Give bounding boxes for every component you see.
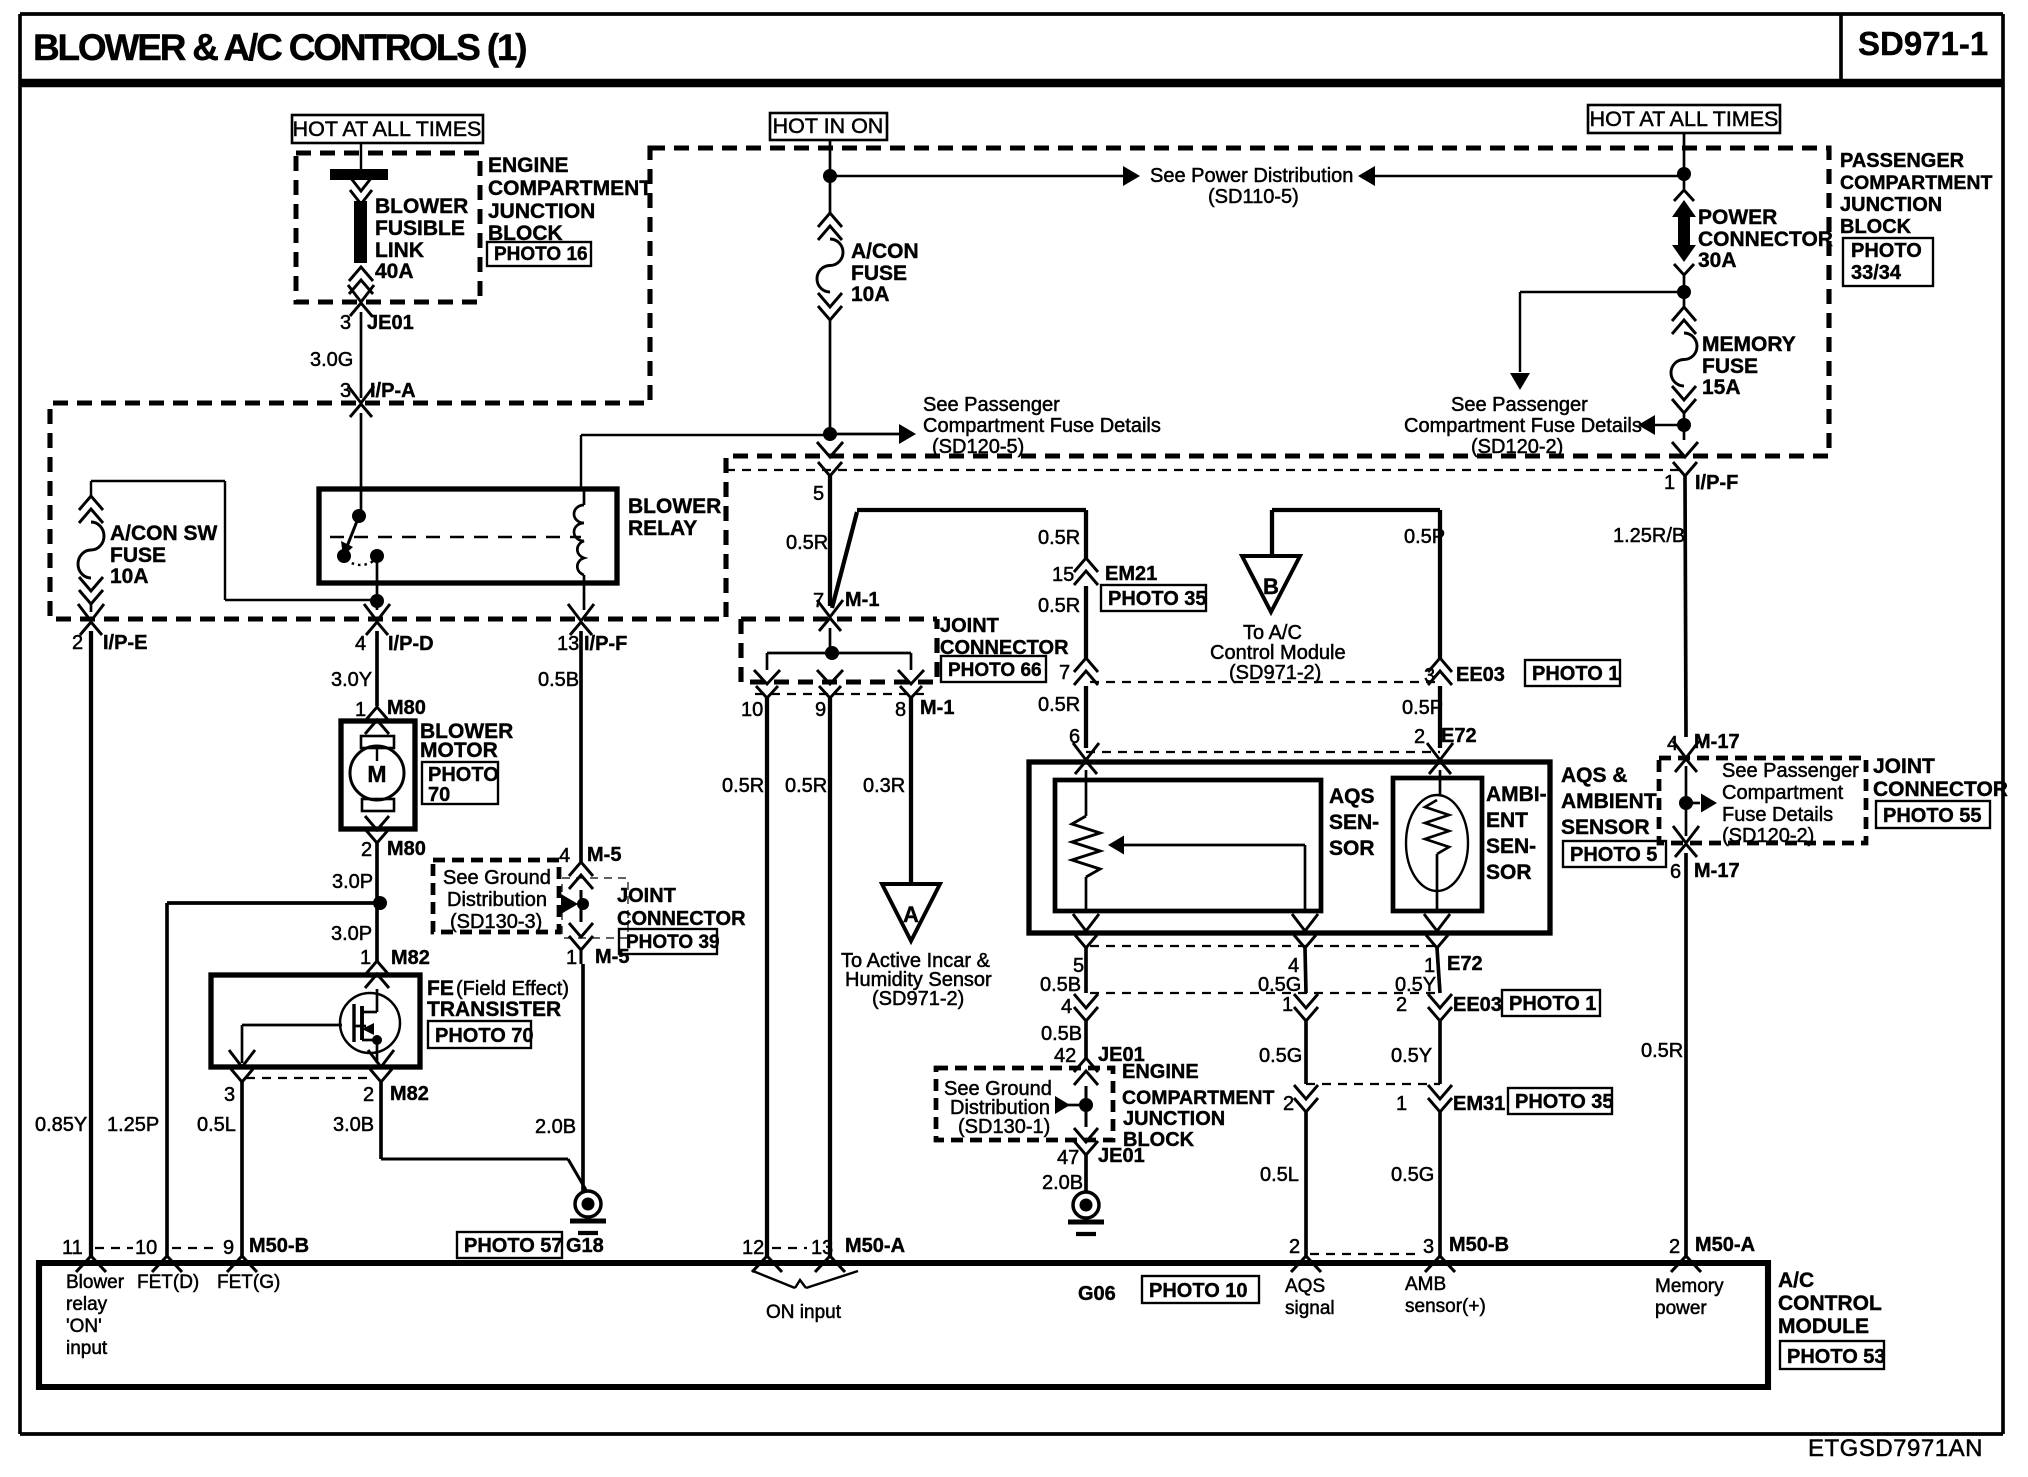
svg-text:I/P-D: I/P-D: [388, 633, 434, 655]
svg-text:Memory: Memory: [1655, 1276, 1724, 1297]
svg-text:PHOTO 1: PHOTO 1: [1509, 993, 1596, 1015]
svg-text:POWER: POWER: [1698, 206, 1777, 229]
svg-text:AQS: AQS: [1285, 1276, 1325, 1297]
svg-text:BLOWER & A/C CONTROLS (1): BLOWER & A/C CONTROLS (1): [33, 27, 526, 68]
svg-text:1: 1: [1396, 1093, 1407, 1115]
svg-text:(SD120-2): (SD120-2): [1722, 825, 1814, 847]
svg-text:0.5R: 0.5R: [786, 532, 828, 554]
svg-text:0.5R: 0.5R: [1641, 1040, 1683, 1062]
svg-text:3: 3: [340, 380, 351, 402]
svg-text:2: 2: [1289, 1236, 1300, 1258]
svg-text:JUNCTION: JUNCTION: [488, 200, 595, 223]
svg-text:(SD971-2): (SD971-2): [872, 988, 964, 1010]
svg-text:PHOTO 5: PHOTO 5: [1570, 844, 1657, 866]
svg-text:0.5B: 0.5B: [1040, 974, 1081, 996]
svg-text:2: 2: [1669, 1236, 1680, 1258]
svg-text:PHOTO 16: PHOTO 16: [494, 244, 588, 265]
svg-text:1: 1: [1664, 472, 1675, 494]
svg-text:(SD130-3): (SD130-3): [450, 911, 542, 933]
svg-text:SENSOR: SENSOR: [1561, 816, 1650, 839]
svg-text:6: 6: [1670, 861, 1681, 883]
svg-text:LINK: LINK: [375, 239, 424, 262]
svg-text:COMPARTMENT: COMPARTMENT: [1122, 1087, 1274, 1109]
svg-text:(SD971-2): (SD971-2): [1229, 662, 1321, 684]
svg-text:'ON': 'ON': [66, 1316, 102, 1337]
svg-text:2: 2: [1283, 1093, 1294, 1115]
svg-text:M50-A: M50-A: [845, 1235, 905, 1257]
svg-text:FUSE: FUSE: [1702, 355, 1758, 378]
svg-text:JOINT: JOINT: [940, 615, 999, 637]
svg-text:0.5L: 0.5L: [1260, 1164, 1299, 1186]
svg-text:2: 2: [363, 1084, 374, 1106]
svg-text:3.0B: 3.0B: [333, 1114, 374, 1136]
svg-text:4: 4: [355, 633, 366, 655]
svg-text:FUSIBLE: FUSIBLE: [375, 217, 465, 240]
svg-text:13: 13: [557, 633, 579, 655]
svg-text:Compartment: Compartment: [1722, 782, 1844, 804]
svg-text:PHOTO: PHOTO: [1851, 240, 1922, 262]
svg-text:M-5: M-5: [587, 844, 621, 866]
svg-text:0.5R: 0.5R: [1038, 595, 1080, 617]
svg-text:1: 1: [1282, 994, 1293, 1016]
svg-text:9: 9: [223, 1237, 234, 1259]
svg-text:SD971-1: SD971-1: [1858, 25, 1988, 62]
svg-text:5: 5: [813, 483, 824, 505]
svg-text:70: 70: [428, 784, 450, 806]
svg-text:AQS &: AQS &: [1561, 764, 1628, 787]
svg-text:4: 4: [559, 845, 570, 867]
svg-text:See Power Distribution: See Power Distribution: [1150, 165, 1353, 187]
svg-text:0.5P: 0.5P: [1402, 697, 1443, 719]
svg-text:HOT AT ALL TIMES: HOT AT ALL TIMES: [1590, 107, 1779, 131]
svg-text:10A: 10A: [110, 565, 149, 588]
svg-text:BLOWER: BLOWER: [375, 195, 468, 218]
svg-text:3: 3: [1423, 1236, 1434, 1258]
svg-text:See Passenger: See Passenger: [1451, 394, 1588, 416]
svg-text:CONNECTOR: CONNECTOR: [1698, 228, 1833, 251]
svg-text:0.5G: 0.5G: [1258, 974, 1301, 996]
svg-text:COMPARTMENT: COMPARTMENT: [1840, 172, 1992, 194]
svg-text:I/P-F: I/P-F: [584, 633, 627, 655]
svg-text:JOINT: JOINT: [617, 885, 676, 907]
svg-text:Control Module: Control Module: [1210, 642, 1346, 664]
svg-text:2.0B: 2.0B: [535, 1116, 576, 1138]
svg-text:PHOTO 70: PHOTO 70: [435, 1025, 534, 1047]
svg-text:3.0P: 3.0P: [331, 923, 372, 945]
svg-text:CONTROL: CONTROL: [1778, 1292, 1882, 1315]
svg-text:40A: 40A: [375, 260, 414, 283]
svg-text:4: 4: [1061, 996, 1072, 1018]
svg-text:2: 2: [72, 632, 83, 654]
svg-text:E72: E72: [1441, 725, 1477, 747]
svg-text:EM21: EM21: [1105, 563, 1157, 585]
svg-text:M50-B: M50-B: [249, 1235, 309, 1257]
svg-text:A/CON SW: A/CON SW: [110, 522, 218, 545]
svg-text:M-5: M-5: [595, 946, 629, 968]
svg-text:MEMORY: MEMORY: [1702, 333, 1796, 356]
svg-text:PHOTO 35: PHOTO 35: [1108, 588, 1207, 610]
svg-text:PHOTO 66: PHOTO 66: [948, 660, 1042, 681]
svg-text:FET(D): FET(D): [137, 1272, 199, 1293]
svg-text:TRANSISTER: TRANSISTER: [427, 998, 561, 1021]
svg-text:PHOTO 53: PHOTO 53: [1787, 1346, 1886, 1368]
svg-text:FET(G): FET(G): [217, 1272, 280, 1293]
svg-text:1: 1: [355, 699, 366, 721]
svg-text:AQS: AQS: [1329, 785, 1375, 808]
svg-text:SOR: SOR: [1486, 861, 1532, 884]
svg-text:E72: E72: [1447, 953, 1483, 975]
svg-text:6: 6: [1069, 726, 1080, 748]
svg-text:JE01: JE01: [367, 312, 414, 334]
svg-text:G06: G06: [1078, 1283, 1116, 1305]
svg-text:PASSENGER: PASSENGER: [1840, 150, 1965, 172]
svg-text:(SD110-5): (SD110-5): [1208, 186, 1299, 208]
svg-text:10: 10: [741, 699, 763, 721]
svg-text:M80: M80: [387, 838, 426, 860]
svg-text:(Field Effect): (Field Effect): [456, 978, 569, 1000]
svg-text:M82: M82: [390, 1083, 429, 1105]
svg-text:HOT IN ON: HOT IN ON: [773, 114, 884, 138]
svg-text:4: 4: [1667, 733, 1678, 755]
svg-text:15: 15: [1052, 564, 1074, 586]
svg-text:3: 3: [1424, 665, 1435, 687]
svg-text:Compartment Fuse Details: Compartment Fuse Details: [923, 415, 1161, 437]
svg-text:See Passenger: See Passenger: [923, 394, 1060, 416]
svg-text:0.85Y: 0.85Y: [35, 1114, 87, 1136]
svg-text:JOINT: JOINT: [1873, 755, 1935, 778]
svg-text:10A: 10A: [851, 283, 890, 306]
svg-text:SEN-: SEN-: [1329, 811, 1379, 834]
svg-text:I/P-A: I/P-A: [370, 380, 416, 402]
svg-text:0.5R: 0.5R: [785, 775, 827, 797]
svg-text:FE: FE: [427, 977, 454, 1000]
svg-text:A/CON: A/CON: [851, 240, 919, 263]
svg-text:AMB: AMB: [1405, 1274, 1446, 1295]
svg-text:M50-B: M50-B: [1449, 1234, 1509, 1256]
svg-text:See Passenger: See Passenger: [1722, 760, 1859, 782]
svg-text:11: 11: [62, 1237, 83, 1259]
svg-text:AMBI-: AMBI-: [1486, 783, 1547, 806]
svg-text:power: power: [1655, 1298, 1707, 1319]
svg-text:0.5R: 0.5R: [722, 775, 764, 797]
svg-text:relay: relay: [66, 1294, 108, 1315]
svg-text:MOTOR: MOTOR: [420, 739, 498, 762]
svg-text:Compartment Fuse Details: Compartment Fuse Details: [1404, 415, 1642, 437]
svg-text:G18: G18: [566, 1235, 604, 1257]
svg-text:ENT: ENT: [1486, 809, 1528, 832]
svg-text:9: 9: [815, 699, 826, 721]
svg-text:M-1: M-1: [845, 589, 879, 611]
svg-text:To A/C: To A/C: [1243, 622, 1302, 644]
svg-text:(SD120-5): (SD120-5): [932, 436, 1024, 458]
svg-text:(SD130-1): (SD130-1): [958, 1116, 1050, 1138]
svg-text:FUSE: FUSE: [110, 544, 166, 567]
svg-text:BLOWER: BLOWER: [628, 495, 721, 518]
svg-text:ENGINE: ENGINE: [1122, 1061, 1199, 1083]
svg-text:B: B: [1263, 574, 1279, 599]
svg-text:2.0B: 2.0B: [1042, 1172, 1083, 1194]
svg-text:0.5L: 0.5L: [197, 1114, 236, 1136]
svg-text:3.0Y: 3.0Y: [331, 669, 372, 691]
svg-text:0.5Y: 0.5Y: [1391, 1045, 1432, 1067]
svg-text:FUSE: FUSE: [851, 262, 907, 285]
svg-text:PHOTO 35: PHOTO 35: [1515, 1091, 1614, 1113]
svg-text:M80: M80: [387, 697, 426, 719]
svg-text:I/P-F: I/P-F: [1695, 472, 1738, 494]
svg-text:EE03: EE03: [1456, 664, 1505, 686]
svg-text:PHOTO: PHOTO: [428, 764, 499, 786]
svg-text:0.5G: 0.5G: [1391, 1164, 1434, 1186]
svg-text:0.5B: 0.5B: [538, 669, 579, 691]
svg-text:JUNCTION: JUNCTION: [1840, 194, 1942, 216]
svg-text:HOT AT ALL TIMES: HOT AT ALL TIMES: [293, 117, 482, 141]
svg-text:Fuse Details: Fuse Details: [1722, 804, 1833, 826]
svg-text:1: 1: [360, 947, 371, 969]
svg-text:JE01: JE01: [1098, 1145, 1145, 1167]
svg-text:MODULE: MODULE: [1778, 1315, 1869, 1338]
svg-text:ON input: ON input: [766, 1302, 842, 1323]
svg-text:1.25P: 1.25P: [107, 1114, 159, 1136]
svg-text:A/C: A/C: [1778, 1269, 1814, 1292]
svg-text:PHOTO 1: PHOTO 1: [1532, 663, 1619, 685]
svg-text:M-1: M-1: [920, 697, 954, 719]
svg-text:PHOTO 57: PHOTO 57: [464, 1235, 563, 1257]
svg-text:M-17: M-17: [1694, 860, 1740, 882]
svg-text:47: 47: [1057, 1147, 1079, 1169]
svg-text:0.3R: 0.3R: [863, 775, 905, 797]
svg-text:0.5P: 0.5P: [1404, 526, 1445, 548]
svg-text:8: 8: [895, 699, 906, 721]
svg-text:33/34: 33/34: [1851, 262, 1902, 284]
svg-text:Blower: Blower: [66, 1272, 125, 1293]
svg-text:2: 2: [1414, 726, 1425, 748]
svg-text:2: 2: [361, 839, 372, 861]
svg-text:CONNECTOR: CONNECTOR: [1873, 778, 2008, 801]
svg-text:10: 10: [135, 1237, 157, 1259]
svg-text:ETGSD7971AN: ETGSD7971AN: [1808, 1435, 1983, 1462]
svg-text:input: input: [66, 1338, 108, 1359]
svg-text:JUNCTION: JUNCTION: [1123, 1108, 1225, 1130]
svg-text:SOR: SOR: [1329, 837, 1375, 860]
svg-text:2: 2: [1396, 994, 1407, 1016]
svg-text:0.5R: 0.5R: [1038, 527, 1080, 549]
svg-text:See Ground: See Ground: [443, 867, 551, 889]
svg-text:M: M: [367, 761, 386, 787]
svg-text:30A: 30A: [1698, 249, 1737, 272]
svg-text:0.5Y: 0.5Y: [1395, 974, 1436, 996]
svg-text:PHOTO 39: PHOTO 39: [626, 932, 720, 953]
svg-text:12: 12: [742, 1237, 764, 1259]
svg-text:PHOTO 10: PHOTO 10: [1149, 1280, 1248, 1302]
svg-text:A: A: [903, 902, 919, 927]
svg-text:(SD120-2): (SD120-2): [1471, 436, 1563, 458]
svg-text:M-17: M-17: [1694, 731, 1740, 753]
svg-text:Distribution: Distribution: [447, 889, 547, 911]
svg-text:BLOCK: BLOCK: [1840, 216, 1912, 238]
svg-text:signal: signal: [1285, 1298, 1335, 1319]
svg-text:3.0G: 3.0G: [310, 349, 353, 371]
svg-text:ENGINE: ENGINE: [488, 154, 569, 177]
svg-text:1.25R/B: 1.25R/B: [1613, 525, 1685, 547]
svg-text:7: 7: [1059, 662, 1070, 684]
svg-text:3: 3: [224, 1084, 235, 1106]
svg-text:I/P-E: I/P-E: [103, 632, 147, 654]
svg-text:RELAY: RELAY: [628, 517, 697, 540]
svg-text:3.0P: 3.0P: [332, 871, 373, 893]
svg-text:M50-A: M50-A: [1695, 1234, 1755, 1256]
svg-text:EM31: EM31: [1453, 1093, 1505, 1115]
svg-text:42: 42: [1054, 1045, 1076, 1067]
svg-text:SEN-: SEN-: [1486, 835, 1536, 858]
svg-text:COMPARTMENT: COMPARTMENT: [488, 177, 652, 200]
svg-text:13: 13: [811, 1237, 833, 1259]
svg-text:15A: 15A: [1702, 376, 1741, 399]
svg-text:0.5G: 0.5G: [1259, 1045, 1302, 1067]
svg-text:0.5R: 0.5R: [1038, 694, 1080, 716]
svg-text:sensor(+): sensor(+): [1405, 1296, 1486, 1317]
svg-text:0.5B: 0.5B: [1041, 1023, 1082, 1045]
svg-text:M82: M82: [391, 947, 430, 969]
svg-text:1: 1: [566, 947, 577, 969]
svg-text:CONNECTOR: CONNECTOR: [617, 908, 746, 930]
svg-text:7: 7: [813, 590, 824, 612]
svg-text:3: 3: [340, 312, 351, 334]
svg-text:AMBIENT: AMBIENT: [1561, 790, 1657, 813]
svg-text:EE03: EE03: [1453, 994, 1502, 1016]
svg-text:PHOTO 55: PHOTO 55: [1883, 805, 1982, 827]
